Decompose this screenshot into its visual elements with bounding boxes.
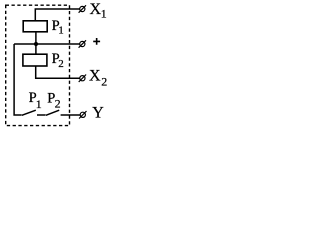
contact P2 blade bbox=[46, 110, 59, 115]
svg-text:1: 1 bbox=[36, 97, 42, 111]
wire: between contacts bbox=[37, 114, 46, 116]
node junction dot bbox=[34, 42, 38, 46]
dashed enclosure border bbox=[6, 5, 70, 125]
svg-text:1: 1 bbox=[101, 7, 107, 21]
wire: plus rail bbox=[14, 43, 80, 45]
relay coil P1 bbox=[23, 21, 47, 32]
background bbox=[0, 0, 115, 138]
svg-text:X: X bbox=[90, 1, 102, 18]
svg-text:2: 2 bbox=[58, 58, 64, 70]
wire: to Y terminal bbox=[61, 114, 81, 116]
wire: P1 bottom pin bbox=[35, 32, 37, 44]
wire: P2 top pin bbox=[35, 44, 37, 54]
contact P1 blade bbox=[22, 110, 36, 115]
relay coil P2 bbox=[23, 54, 47, 66]
svg-text:1: 1 bbox=[58, 25, 64, 37]
svg-text:Y: Y bbox=[92, 104, 104, 121]
svg-text:2: 2 bbox=[55, 97, 61, 111]
svg-text:X: X bbox=[89, 68, 101, 85]
terminal Y circle bbox=[80, 112, 85, 117]
wire: P2 bottom to X2 terminal bbox=[36, 66, 80, 78]
svg-text:2: 2 bbox=[101, 75, 107, 89]
wire: left rail from plus line down to contacts bbox=[14, 44, 22, 115]
wire: P1 top to X1 terminal bbox=[35, 9, 79, 21]
terminal + circle bbox=[80, 41, 85, 46]
terminal X2 circle bbox=[80, 76, 85, 81]
label + bbox=[93, 38, 100, 45]
terminal X1 circle bbox=[80, 6, 85, 11]
